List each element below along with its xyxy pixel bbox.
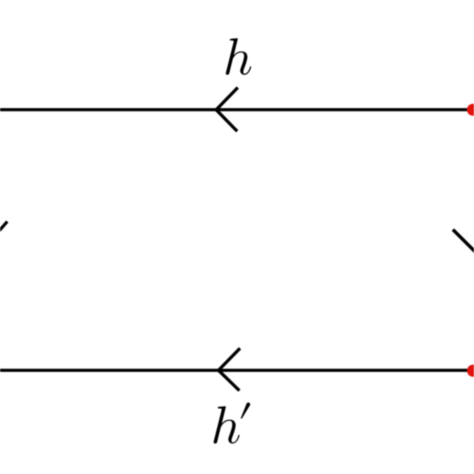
wire: top arrow shaft (morphism h) (0, 108, 468, 111)
label h' (bottom arrow) (214, 402, 251, 443)
arrowhead on bottom arrow (pointing left) (219, 348, 241, 390)
clipped arrowhead tip at left edge (0, 222, 7, 230)
arrowhead on top arrow (pointing left) (216, 88, 238, 132)
wire: clipped diagonal arrow segment at right edge (453, 230, 474, 253)
node: red endpoint of bottom arrow (467, 365, 474, 377)
node: red endpoint of top arrow (467, 104, 474, 116)
label h (top arrow) (226, 38, 251, 75)
wire: bottom arrow shaft (morphism h') (0, 369, 468, 372)
